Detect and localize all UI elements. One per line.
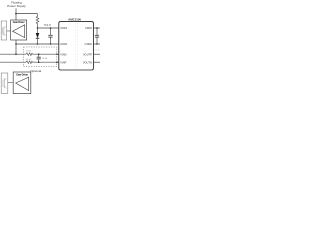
svg-text:VOUTP: VOUTP xyxy=(83,52,92,56)
wire GND2 rail xyxy=(93,43,100,45)
svg-text:Gate Driver: Gate Driver xyxy=(16,74,28,77)
svg-text:VINP: VINP xyxy=(60,60,66,64)
node junction filter cap top xyxy=(38,53,40,55)
wire Q1 to gate driver U2 xyxy=(7,30,13,32)
capacitor C1 (VDD1 bypass) xyxy=(48,28,52,44)
svg-text:10 Ω: 10 Ω xyxy=(26,59,31,61)
node junction cap C1 top xyxy=(50,27,52,29)
node: floating power supply label xyxy=(7,1,26,8)
transistor Q2 (bottom IGBT box) xyxy=(1,73,8,93)
buffer triangle U3 xyxy=(16,77,29,90)
svg-text:VOUTN: VOUTN xyxy=(83,60,92,64)
node junction cap C1 bottom xyxy=(50,43,52,45)
svg-text:VINN: VINN xyxy=(60,52,66,56)
wire Q2 to gate driver U3 xyxy=(8,82,16,84)
svg-text:10 nF: 10 nF xyxy=(42,58,48,60)
wire supply branch to resistor R1 xyxy=(16,13,38,15)
node junction GND2 xyxy=(96,43,98,45)
pin arrow VINN xyxy=(56,53,58,55)
buffer triangle U2 xyxy=(13,25,25,38)
wire VOUTN xyxy=(93,61,100,63)
optional dashed box xyxy=(24,47,57,67)
svg-text:GND1: GND1 xyxy=(60,42,68,46)
wire phase node vertical from gate driver down to VINN line xyxy=(15,40,17,54)
node junction at supply branch xyxy=(15,13,17,15)
zener diode D1 (5.0V clamp) xyxy=(36,28,40,44)
resistor R2 (VINN series) xyxy=(26,53,58,56)
wire VINN line from shunt (off image) xyxy=(0,53,26,55)
resistor R1 (vertical zigzag) xyxy=(36,14,39,28)
svg-text:GND2: GND2 xyxy=(85,42,93,46)
node junction VDD2 xyxy=(96,27,98,29)
transistor Q1 (top IGBT box) xyxy=(1,21,6,40)
svg-text:VDD1: VDD1 xyxy=(60,26,67,30)
isolation barrier dashes xyxy=(75,23,77,69)
capacitor C3 (VDD2 bypass) xyxy=(95,28,99,44)
wire from floating supply down to gate driver U2 xyxy=(15,8,17,20)
node junction GND1 at phase line xyxy=(15,43,17,45)
svg-text:Power Supply: Power Supply xyxy=(7,4,26,8)
capacitor C2 (input filter) xyxy=(37,54,41,62)
resistor R3 (VINP series) xyxy=(26,61,58,64)
svg-text:5.0 V: 5.0 V xyxy=(44,23,51,27)
svg-text:Optional: Optional xyxy=(30,69,41,73)
svg-text:Gate Driver: Gate Driver xyxy=(13,21,25,24)
wire GND1 rail xyxy=(16,43,59,45)
wire VINP line from shunt (off image) xyxy=(0,61,26,63)
wire VDD1 rail to pin xyxy=(38,27,59,29)
node junction at VINN line xyxy=(15,53,17,55)
node VDD1 junction at resistor bottom xyxy=(37,27,39,29)
svg-text:10 Ω: 10 Ω xyxy=(26,51,31,53)
wire VDD2 rail xyxy=(93,27,100,29)
svg-text:0.1 µF: 0.1 µF xyxy=(94,50,100,52)
gate driver U2 (top) xyxy=(11,20,27,40)
svg-text:AMC1100: AMC1100 xyxy=(68,17,81,21)
wire VOUTP xyxy=(93,53,100,55)
pin arrow VINP xyxy=(56,61,58,63)
gate driver U3 (bottom) xyxy=(13,72,31,94)
node junction zener to GND1 rail xyxy=(37,43,39,45)
node junction filter cap bottom xyxy=(38,61,40,63)
svg-text:VDD2: VDD2 xyxy=(85,26,92,30)
